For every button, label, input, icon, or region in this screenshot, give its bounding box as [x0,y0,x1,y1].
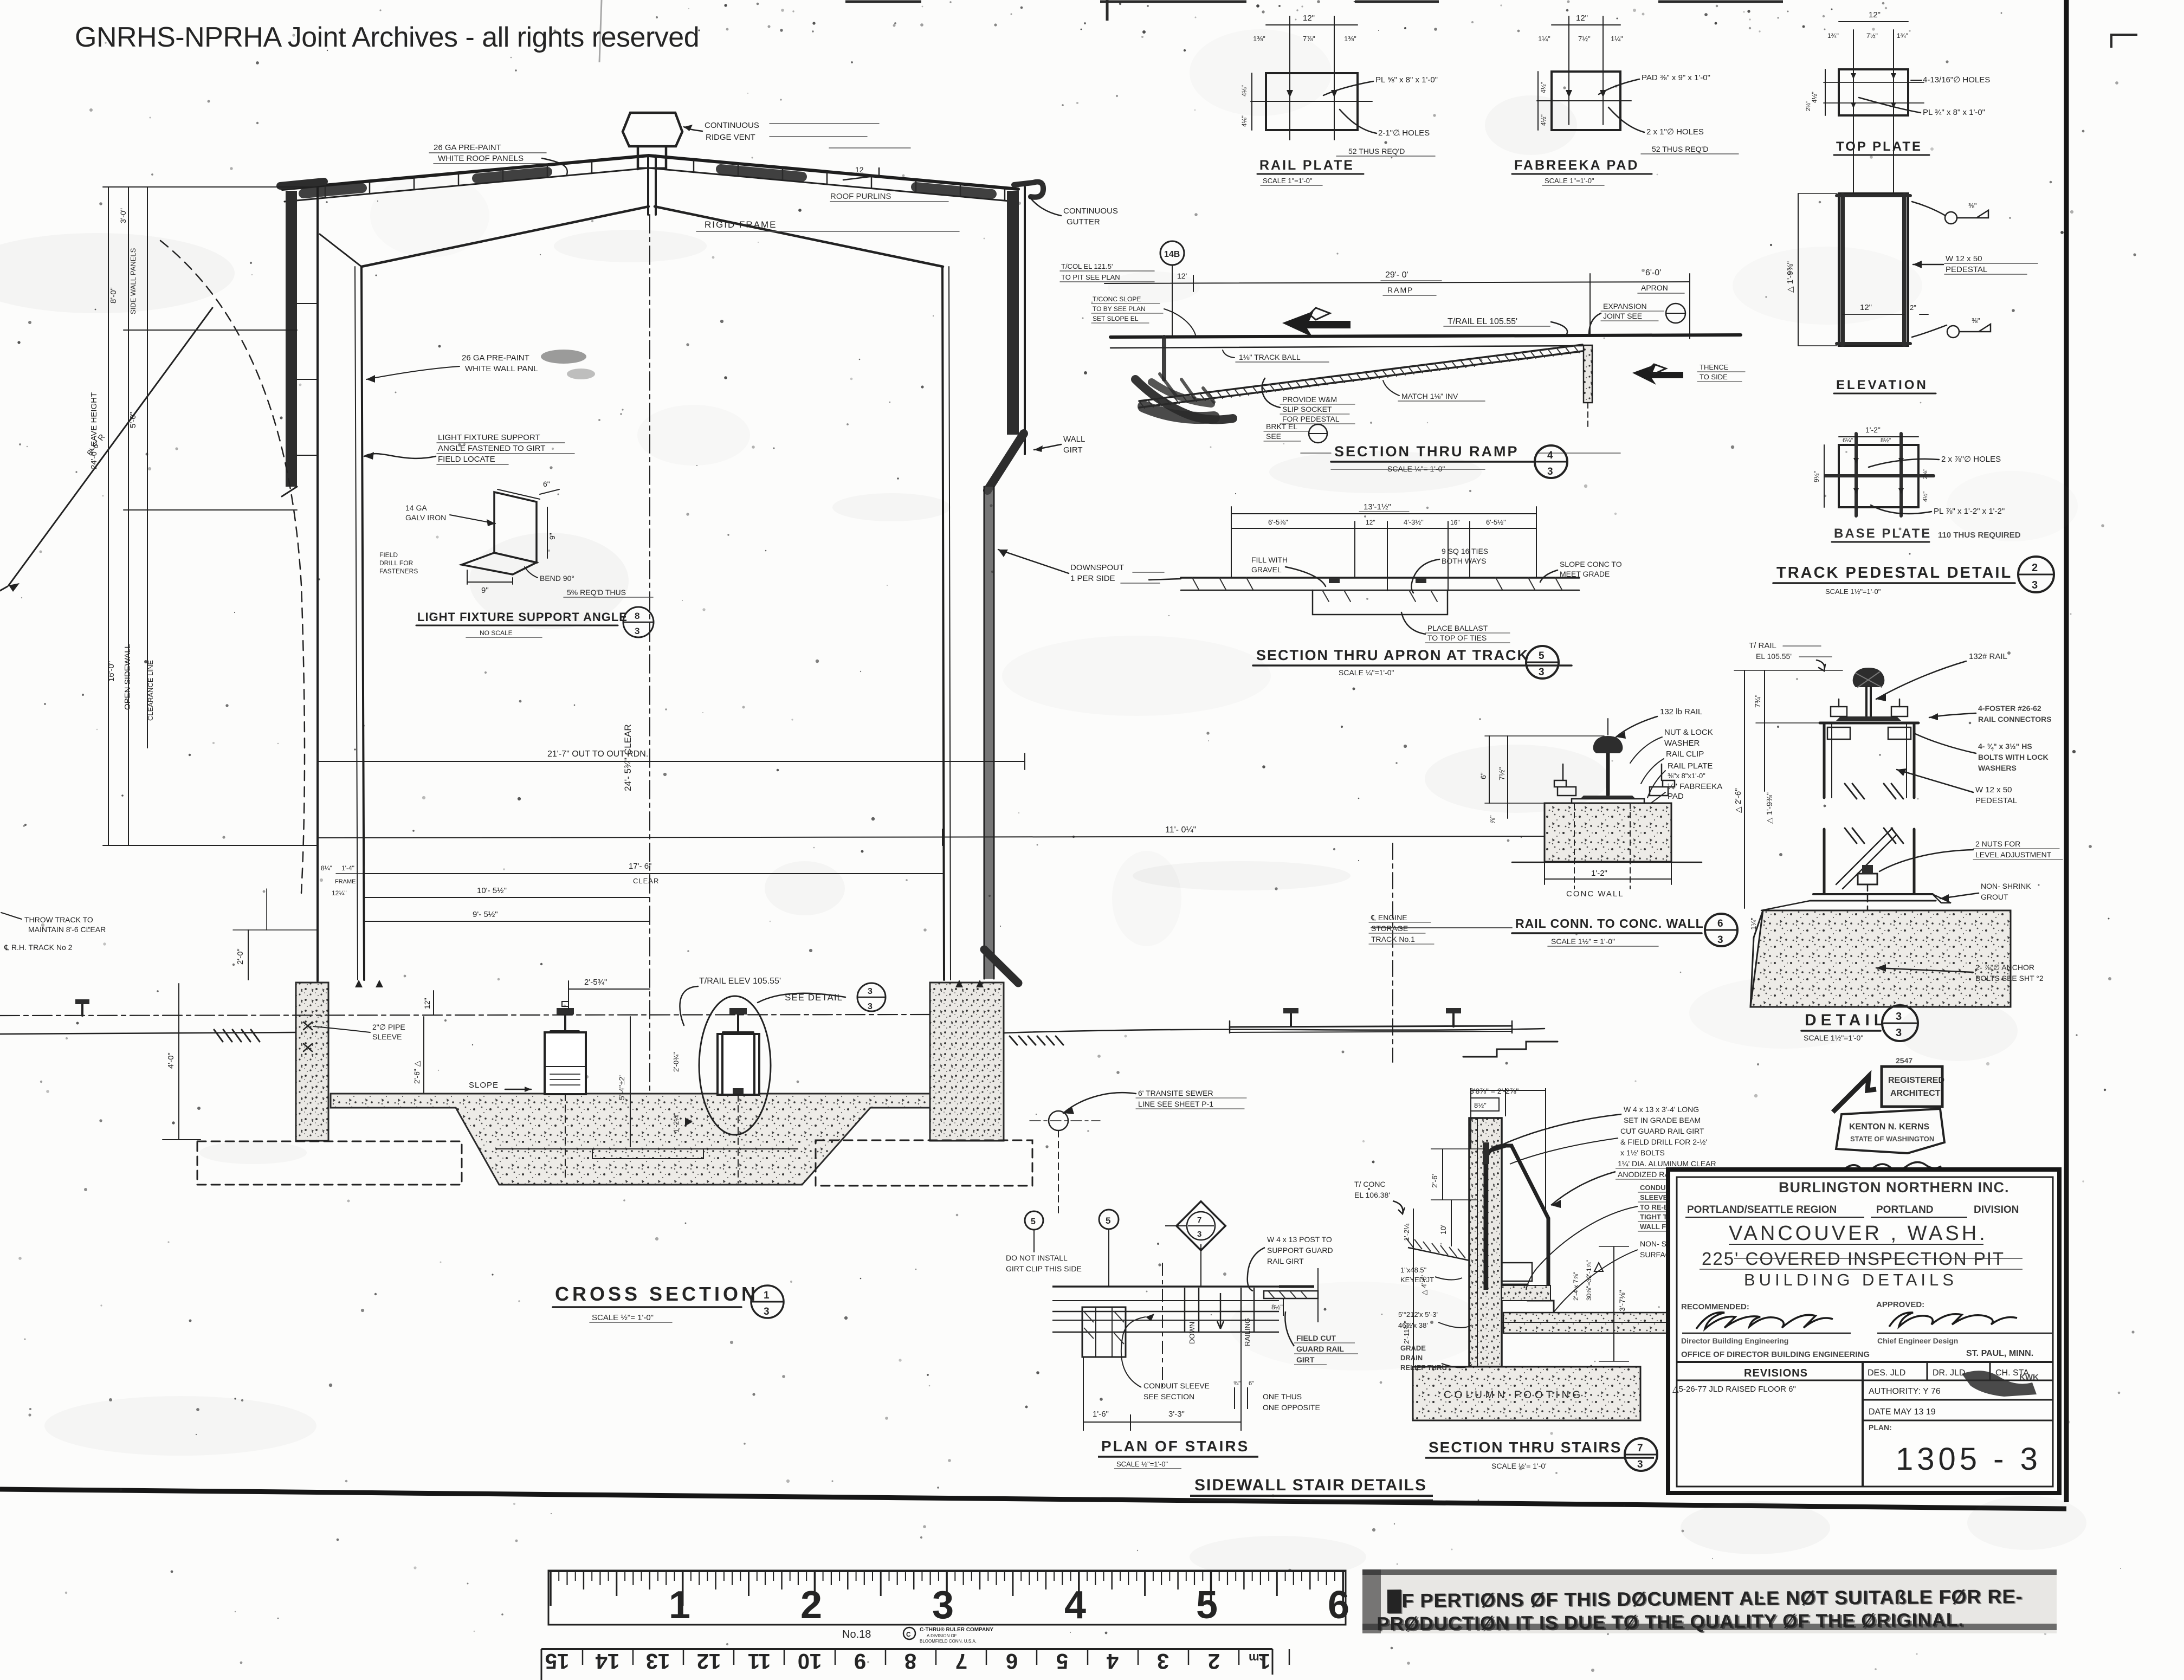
track elevation line [0,1015,930,1016]
svg-text:SCALE 1½"=1'-0": SCALE 1½"=1'-0" [1825,587,1881,596]
svg-text:& FIELD DRILL FOR 2-½': & FIELD DRILL FOR 2-½' [1620,1138,1707,1146]
svg-text:1⅛" TRACK BALL: 1⅛" TRACK BALL [1239,353,1301,361]
pit slab and footing [331,1094,930,1185]
svg-text:T/ RAIL: T/ RAIL [1749,641,1776,650]
svg-text:12": 12" [1366,519,1375,526]
svg-text:PL ¾" x 8" x 1'-0": PL ¾" x 8" x 1'-0" [1923,108,1985,117]
svg-text:4: 4 [1106,1649,1119,1673]
svg-text:7: 7 [1637,1443,1643,1454]
svg-text:3: 3 [1717,934,1723,946]
ground line right of building [1004,1029,1545,1033]
svg-text:SLOPE CONC TO: SLOPE CONC TO [1560,560,1622,568]
svg-text:TRACK PEDESTAL DETAIL: TRACK PEDESTAL DETAIL [1776,564,2012,581]
svg-text:1'-2": 1'-2" [1591,869,1607,878]
svg-text:4⅛": 4⅛" [1240,115,1248,127]
svg-text:11'- 0¼": 11'- 0¼" [1165,825,1196,835]
svg-text:14 GA: 14 GA [405,503,427,512]
svg-text:ST. PAUL, MINN.: ST. PAUL, MINN. [1966,1349,2033,1358]
svg-text:1"x48.5": 1"x48.5" [1400,1266,1427,1274]
svg-text:BUILDING DETAILS: BUILDING DETAILS [1744,1270,1957,1289]
svg-text:TO SIDE: TO SIDE [1700,373,1728,381]
left wall outer [316,187,319,981]
svg-text:ANGLE FASTENED TO GIRT: ANGLE FASTENED TO GIRT [438,444,545,453]
svg-text:△5-26-77 JLD RAISED FLOOR 6": △5-26-77 JLD RAISED FLOOR 6" [1672,1385,1796,1394]
svg-text:△ 2'-6": △ 2'-6" [1734,788,1743,813]
svg-text:1'-2": 1'-2" [1865,425,1881,434]
svg-text:KEYED JT: KEYED JT [1400,1276,1434,1284]
track hatch [214,1030,260,1042]
title block [1668,1169,2059,1493]
svg-text:1¼": 1¼" [1538,35,1550,43]
svg-text:AUTHORITY: Y 76: AUTHORITY: Y 76 [1869,1387,1941,1396]
svg-text:1¾": 1¾" [1897,32,1908,40]
svg-text:29'- 0': 29'- 0' [1385,270,1408,280]
step profile [1463,1042,1558,1057]
svg-text:Chief Engineer Design: Chief Engineer Design [1877,1336,1958,1345]
svg-text:6": 6" [1479,772,1488,779]
svg-text:6'-0': 6'-0' [1645,268,1661,277]
svg-text:CONTINUOUS: CONTINUOUS [705,121,759,130]
section thru ramp [1091,241,1745,478]
guard rail girt [984,949,1018,983]
svg-text:3: 3 [868,1002,873,1011]
svg-text:5'-4"±2': 5'-4"±2' [617,1075,626,1100]
svg-text:4½": 4½" [1811,92,1818,103]
svg-text:7½": 7½" [1497,767,1506,780]
svg-text:4: 4 [1547,450,1553,461]
svg-text:PAD: PAD [1668,792,1684,801]
svg-text:GALV IRON: GALV IRON [405,513,446,522]
svg-text:12": 12" [1869,10,1881,20]
svg-text:14: 14 [595,1649,619,1673]
svg-text:RAIL CONNECTORS: RAIL CONNECTORS [1978,715,2052,723]
svg-text:RAMP: RAMP [1387,286,1413,294]
svg-text:JOINT SEE: JOINT SEE [1603,312,1642,320]
svg-text:4-FOSTER #26-62: 4-FOSTER #26-62 [1978,704,2041,713]
svg-text:LINE SEE SHEET P-1: LINE SEE SHEET P-1 [1138,1100,1213,1108]
svg-text:3: 3 [1157,1649,1169,1673]
svg-text:5: 5 [1539,650,1545,662]
svg-text:GIRT: GIRT [1063,445,1083,455]
svg-text:2"∅ PIPE: 2"∅ PIPE [372,1023,405,1031]
svg-text:2: 2 [2032,562,2038,574]
svg-text:GRAVEL: GRAVEL [1251,565,1282,574]
svg-text:3'-3": 3'-3" [1168,1410,1185,1419]
svg-text:DES. JLD: DES. JLD [1868,1368,1905,1378]
svg-text:4- ¾" x 3½" HS: 4- ¾" x 3½" HS [1978,742,2032,751]
svg-text:13'-1½": 13'-1½" [1364,502,1391,512]
svg-text:WHITE ROOF PANELS: WHITE ROOF PANELS [438,154,524,163]
svg-text:ELEVATION: ELEVATION [1836,378,1928,392]
svg-text:1'-2¼": 1'-2¼" [672,1113,680,1133]
plan of stairs [1052,1201,1358,1469]
right wall lower / downspout [984,487,994,979]
svg-text:10': 10' [1439,1225,1448,1235]
svg-text:DOWN: DOWN [1188,1322,1196,1344]
svg-text:¼" FABREEKA: ¼" FABREEKA [1668,782,1722,791]
svg-text:TO TOP OF TIES: TO TOP OF TIES [1427,634,1487,642]
svg-text:2½": 2½" [1805,101,1812,111]
svg-text:9": 9" [481,586,489,595]
svg-text:4½": 4½" [1540,82,1547,93]
svg-text:FILL WITH: FILL WITH [1251,555,1288,564]
svg-text:5% REQ'D THUS: 5% REQ'D THUS [567,588,626,597]
svg-text:6¼": 6¼" [1843,437,1853,444]
svg-text:APPROVED:: APPROVED: [1876,1300,1924,1309]
svg-text:ROOF PURLINS: ROOF PURLINS [830,192,891,201]
svg-text:2⅝": 2⅝" [1922,469,1929,479]
svg-text:132 lb RAIL: 132 lb RAIL [1660,707,1702,716]
svg-text:DRILL FOR: DRILL FOR [379,559,413,567]
left wall panel [286,191,297,487]
ridge vent [648,156,656,215]
svg-text:FIELD LOCATE: FIELD LOCATE [438,455,495,464]
svg-text:2547: 2547 [1896,1056,1912,1065]
svg-text:11: 11 [748,1649,771,1673]
svg-text:PL ⅝" x 8" x 1'-0": PL ⅝" x 8" x 1'-0" [1375,75,1438,85]
svg-text:EL 106.38': EL 106.38' [1354,1191,1390,1199]
svg-text:GIRT CLIP THIS SIDE: GIRT CLIP THIS SIDE [1006,1264,1082,1273]
svg-text:RAIL PLATE: RAIL PLATE [1259,158,1354,173]
detail 3/3 pedestal [1734,641,2063,1042]
svg-text:⅜": ⅜" [1968,202,1977,210]
svg-text:5: 5 [1106,1216,1110,1226]
svg-text:SLIP SOCKET: SLIP SOCKET [1282,405,1332,413]
svg-text:5: 5 [1196,1584,1218,1627]
svg-text:DATE MAY 13 19: DATE MAY 13 19 [1869,1407,1936,1417]
svg-text:1'-2¼: 1'-2¼ [1403,1224,1411,1241]
svg-text:RIDGE VENT: RIDGE VENT [706,133,755,142]
svg-text:RAIL GIRT: RAIL GIRT [1267,1257,1304,1265]
svg-text:SLEEVE: SLEEVE [372,1032,402,1041]
svg-text:3: 3 [1637,1459,1643,1470]
svg-text:T/RAIL EL 105.55': T/RAIL EL 105.55' [1448,317,1517,326]
svg-text:4'-0": 4'-0" [166,1052,176,1069]
svg-text:cm: cm [1249,1651,1266,1665]
svg-text:2'-5¾": 2'-5¾" [584,978,607,987]
svg-text:52 THUS REQ'D: 52 THUS REQ'D [1652,145,1708,153]
svg-text:SIDE WALL PANELS: SIDE WALL PANELS [129,248,137,314]
svg-text:RELIEF THRU: RELIEF THRU [1400,1364,1447,1372]
svg-text:SCALE ½"=1'-0": SCALE ½"=1'-0" [1116,1460,1168,1468]
svg-text:NO SCALE: NO SCALE [480,629,513,637]
svg-text:T/COL EL 121.5': T/COL EL 121.5' [1061,262,1113,270]
elevation detail [1786,193,2038,393]
svg-text:16": 16" [1450,519,1460,526]
svg-text:PORTLAND: PORTLAND [1876,1204,1934,1216]
svg-text:⅜": ⅜" [1972,316,1980,325]
svg-text:SEE SECTION: SEE SECTION [1143,1392,1194,1401]
svg-text:1¼": 1¼" [1749,917,1757,930]
svg-text:SCALE 1"=1'-0": SCALE 1"=1'-0" [1263,177,1313,185]
svg-text:EL 105.55': EL 105.55' [1756,652,1792,661]
svg-text:1⅜": 1⅜" [1253,35,1265,43]
svg-text:26 GA PRE-PAINT: 26 GA PRE-PAINT [462,353,529,363]
svg-text:KENTON N. KERNS: KENTON N. KERNS [1849,1122,1929,1132]
svg-text:TO BY SEE PLAN: TO BY SEE PLAN [1093,305,1146,313]
svg-text:SECTION THRU APRON AT TRACK: SECTION THRU APRON AT TRACK [1256,647,1529,663]
svg-text:9'- 5½": 9'- 5½" [473,910,498,919]
section thru apron at track [1149,502,1622,679]
svg-text:132# RAIL: 132# RAIL [1969,652,2007,661]
svg-text:21'-7" OUT TO OUT RDN.: 21'-7" OUT TO OUT RDN. [547,749,648,759]
svg-text:T/RAIL ELEV 105.55': T/RAIL ELEV 105.55' [699,977,781,986]
svg-text:3: 3 [764,1306,770,1317]
svg-text:8'-0": 8'-0" [109,287,118,303]
svg-text:MAINTAIN 8'-6 CLEAR: MAINTAIN 8'-6 CLEAR [28,925,106,934]
svg-text:1'-6": 1'-6" [1093,1410,1109,1419]
svg-text:SCALE ¼"= 1'-0": SCALE ¼"= 1'-0" [1387,464,1445,473]
svg-text:7⅞": 7⅞" [1303,35,1315,43]
svg-text:8¼": 8¼" [321,864,332,872]
svg-text:OFFICE OF DIRECTOR BUILDING EN: OFFICE OF DIRECTOR BUILDING ENGINEERING [1681,1350,1870,1359]
svg-text:BURLINGTON NORTHERN INC.: BURLINGTON NORTHERN INC. [1779,1179,2009,1196]
svg-text:RIGID FRAME: RIGID FRAME [705,219,777,230]
svg-text:2'-0¾": 2'-0¾" [672,1052,680,1072]
svg-text:52 THUS REQ'D: 52 THUS REQ'D [1348,147,1405,156]
left column inner [361,267,364,980]
svg-text:4½": 4½" [1540,114,1547,126]
svg-text:RAIL CONN. TO CONC. WALL: RAIL CONN. TO CONC. WALL [1515,916,1704,931]
svg-text:7¾": 7¾" [1753,695,1762,708]
svg-text:2 x ⅞"∅ HOLES: 2 x ⅞"∅ HOLES [1941,455,2001,464]
svg-text:1: 1 [669,1584,690,1627]
svg-text:DR. JLD: DR. JLD [1933,1368,1965,1378]
svg-text:2'-0": 2'-0" [236,948,245,965]
svg-text:3: 3 [1896,1027,1902,1039]
svg-text:¾": ¾" [1233,1380,1240,1387]
svg-text:2'-6': 2'-6' [1430,1174,1439,1188]
rigid frame bottom chord [361,206,943,267]
svg-text:3: 3 [1197,1230,1201,1239]
svg-text:5: 5 [1031,1217,1036,1226]
svg-text:12": 12" [1860,303,1872,312]
svg-text:SCALE ½"= 1'-0": SCALE ½"= 1'-0" [592,1313,654,1322]
svg-text:4-13/16"∅ HOLES: 4-13/16"∅ HOLES [1923,75,1990,85]
svg-text:3: 3 [1539,667,1545,678]
svg-text:1¼": 1¼" [1611,35,1623,43]
svg-text:SCALE ¼"=1'-0": SCALE ¼"=1'-0" [1339,668,1394,677]
svg-text:46½'x 38': 46½'x 38' [1398,1321,1428,1329]
svg-text:12¼": 12¼" [332,889,347,897]
svg-text:PORTLAND/SEATTLE REGION: PORTLAND/SEATTLE REGION [1687,1204,1837,1216]
svg-text:PL ⅞" x 1'-2" x 1'-2": PL ⅞" x 1'-2" x 1'-2" [1934,507,2005,516]
dim 2-5 3/4 [568,988,650,990]
dim row 21-7 [318,761,1025,762]
svg-text:3: 3 [1896,1011,1902,1023]
svg-text:T/ CONC: T/ CONC [1354,1180,1386,1188]
svg-text:PEDESTAL: PEDESTAL [1946,265,1987,274]
svg-text:MATCH 1⅛" INV: MATCH 1⅛" INV [1401,392,1458,400]
svg-text:12": 12" [1576,14,1588,23]
svg-text:2 NUTS FOR: 2 NUTS FOR [1975,839,2020,848]
svg-text:THROW TRACK TO: THROW TRACK TO [24,915,93,924]
svg-text:SCALE 1½" = 1'-0": SCALE 1½" = 1'-0" [1551,937,1615,946]
svg-text:6'-5⅞": 6'-5⅞" [1268,518,1288,526]
right wall jog [987,434,1024,490]
svg-text:110 THUS REQUIRED: 110 THUS REQUIRED [1938,531,2021,540]
svg-text:RAIL CLIP: RAIL CLIP [1666,749,1704,759]
svg-text:6: 6 [1717,918,1723,929]
right wall outer [1024,187,1026,454]
svg-text:REVISIONS: REVISIONS [1744,1367,1808,1379]
svg-text:6'-5½": 6'-5½" [1486,518,1506,526]
svg-text:BEND 90°: BEND 90° [540,574,574,583]
svg-text:10: 10 [798,1649,822,1673]
svg-text:SET IN GRADE BEAM: SET IN GRADE BEAM [1624,1116,1701,1125]
svg-text:8½": 8½" [1881,437,1891,444]
svg-text:GUTTER: GUTTER [1067,217,1100,227]
dim row 17-6 [364,873,942,874]
svg-text:SET SLOPE EL: SET SLOPE EL [1093,315,1139,322]
svg-text:8½": 8½" [1271,1303,1283,1311]
engine track centerline [1392,843,1393,1062]
svg-text:PROVIDE W&M: PROVIDE W&M [1282,395,1337,404]
svg-text:LEVEL ADJUSTMENT: LEVEL ADJUSTMENT [1975,850,2052,859]
svg-text:Director Building Engineering: Director Building Engineering [1681,1336,1788,1345]
svg-text:1 PER SIDE: 1 PER SIDE [1070,574,1115,583]
reproduction notice smear [1362,1569,2057,1636]
svg-text:BOTH WAYS: BOTH WAYS [1442,557,1486,565]
svg-text:26 GA PRE-PAINT: 26 GA PRE-PAINT [434,143,501,152]
top plate detail [1805,10,1990,195]
svg-text:KWK: KWK [2019,1373,2039,1382]
svg-text:8: 8 [635,611,639,621]
svg-text:SCALE 1½"=1'-0": SCALE 1½"=1'-0" [1804,1033,1863,1042]
right pier [930,983,1004,1141]
svg-text:24'-0" EAVE HEIGHT: 24'-0" EAVE HEIGHT [89,392,99,469]
svg-text:3'-7⅛": 3'-7⅛" [1618,1290,1626,1311]
left eave cap [280,182,324,186]
dim row 10-5 [364,897,650,898]
svg-text:12': 12' [1177,272,1187,280]
svg-text:14B: 14B [1164,250,1180,259]
svg-text:W 4 x 13 POST TO: W 4 x 13 POST TO [1267,1235,1332,1244]
svg-text:TO PIT SEE PLAN: TO PIT SEE PLAN [1061,273,1120,281]
svg-text:9½": 9½" [1813,471,1820,482]
svg-text:3: 3 [2032,579,2038,591]
svg-text:SCALE 1"=1'-0": SCALE 1"=1'-0" [1545,177,1594,185]
slope mark 12 [843,168,879,180]
svg-text:6' TRANSITE SEWER: 6' TRANSITE SEWER [1138,1089,1213,1097]
svg-text:3'-0": 3'-0" [119,208,127,223]
svg-text:STATE OF WASHINGTON: STATE OF WASHINGTON [1850,1135,1934,1143]
svg-text:PLAN OF STAIRS: PLAN OF STAIRS [1101,1438,1249,1455]
svg-text:13: 13 [646,1649,670,1673]
svg-text:℄ ENGINE: ℄ ENGINE [1371,913,1407,922]
svg-text:FIELD: FIELD [379,551,398,559]
svg-text:ONE THUS: ONE THUS [1263,1392,1302,1401]
rail conn to conc wall [1371,707,1737,946]
svg-text:2: 2 [800,1584,822,1627]
svg-text:△ 1'-9⅜": △ 1'-9⅜" [1786,261,1795,293]
rail pedestal 2 [718,1034,759,1095]
svg-text:RECOMMENDED:: RECOMMENDED: [1681,1302,1749,1311]
svg-text:1: 1 [764,1290,770,1301]
svg-text:CLEARANCE LINE: CLEARANCE LINE [146,660,154,721]
svg-text:WALL: WALL [1063,435,1085,444]
svg-text:BOLTS SEE SHT °2: BOLTS SEE SHT °2 [1975,974,2044,983]
inch ruler [548,1571,1349,1644]
svg-text:6: 6 [1328,1584,1349,1627]
svg-text:DO NOT INSTALL: DO NOT INSTALL [1006,1253,1068,1262]
svg-text:THENCE: THENCE [1700,363,1729,371]
svg-text:2": 2" [1910,303,1916,312]
centerline [649,215,650,1143]
svg-text:W 12 x 50: W 12 x 50 [1946,254,1982,263]
svg-text:ONE OPPOSITE: ONE OPPOSITE [1263,1403,1320,1412]
svg-text:APRON: APRON [1641,283,1668,292]
svg-text:W 12 x 50: W 12 x 50 [1975,785,2012,794]
svg-text:DOWNSPOUT: DOWNSPOUT [1070,563,1124,572]
svg-text:5: 5 [1056,1649,1068,1673]
svg-text:10'- 5½": 10'- 5½" [477,886,507,895]
right column inner [942,267,944,980]
svg-text:2 x 1"∅ HOLES: 2 x 1"∅ HOLES [1646,127,1704,137]
svg-text:3: 3 [932,1584,954,1627]
clearance arc [160,241,305,893]
svg-text:SECTION THRU STAIRS: SECTION THRU STAIRS [1429,1439,1621,1456]
svg-text:TRACK No.1: TRACK No.1 [1371,935,1415,944]
svg-text:CONDUIT SLEEVE: CONDUIT SLEEVE [1143,1381,1210,1390]
svg-text:4⅛": 4⅛" [1240,85,1248,96]
svg-text:C-THRU® RULER COMPANY: C-THRU® RULER COMPANY [920,1627,993,1633]
svg-text:PRØDUCTIØN IT IS DUΕ TØ THΕ QU: PRØDUCTIØN IT IS DUΕ TØ THΕ QUALITY ØF T… [1378,1611,1966,1636]
svg-text:15: 15 [545,1649,570,1673]
svg-text:VANCOUVER , WASH.: VANCOUVER , WASH. [1729,1222,1988,1245]
left footing pad [197,1141,462,1185]
svg-text:2- ⅞"∅ ANCHOR: 2- ⅞"∅ ANCHOR [1975,963,2034,972]
svg-text:CUT GUARD RAIL GIRT: CUT GUARD RAIL GIRT [1620,1127,1704,1135]
sheet right edge [2064,0,2069,1502]
svg-text:7½": 7½" [1866,32,1878,40]
left dim verticals [103,187,318,845]
cm ruler inverted [541,1649,1289,1680]
svg-text:COLUMN FOOTING: COLUMN FOOTING [1444,1390,1584,1401]
svg-text:TOP PLATE: TOP PLATE [1836,139,1922,154]
svg-text:△ 1'-9⅜": △ 1'-9⅜" [1765,792,1774,824]
svg-text:SECTION THRU RAMP: SECTION THRU RAMP [1334,443,1519,460]
svg-text:BRKT EL: BRKT EL [1266,422,1297,431]
left pier [296,983,328,1141]
svg-text:MEET GRADE: MEET GRADE [1560,570,1610,578]
svg-text:PLACE BALLAST: PLACE BALLAST [1427,624,1488,632]
roof panel joints [325,160,1005,201]
svg-text:12": 12" [1303,14,1315,23]
svg-text:PLAN:: PLAN: [1869,1423,1892,1432]
roof second chord [285,168,1016,202]
svg-text:CROSS SECTION: CROSS SECTION [555,1283,759,1305]
svg-text:BOLTS WITH LOCK: BOLTS WITH LOCK [1978,753,2049,761]
left rail symbol [81,1003,83,1016]
svg-text:12": 12" [423,998,431,1009]
svg-text:1¼' DIA. ALUMINUM CLEAR: 1¼' DIA. ALUMINUM CLEAR [1618,1159,1716,1168]
roof shading [303,169,992,194]
rail pedestal 1 [545,1032,586,1094]
svg-text:3: 3 [868,987,873,996]
svg-text:PAD ⅜" x 9" x 1'-0": PAD ⅜" x 9" x 1'-0" [1642,73,1710,82]
svg-text:6: 6 [1006,1649,1018,1673]
svg-text:3: 3 [635,626,639,636]
svg-text:FRAME: FRAME [335,878,356,885]
svg-text:1⅜": 1⅜" [1344,35,1356,43]
svg-text:No.18: No.18 [842,1629,871,1640]
right wall panel [1007,191,1019,435]
svg-text:8½": 8½" [1474,1101,1487,1109]
svg-text:1¾": 1¾" [1827,32,1839,40]
svg-text:SLOPE: SLOPE [469,1081,499,1090]
svg-text:3: 3 [1547,466,1553,477]
